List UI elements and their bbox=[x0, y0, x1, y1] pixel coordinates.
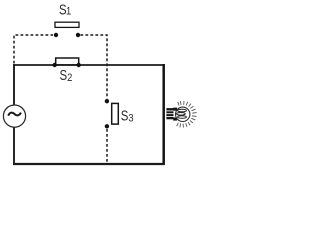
svg-text:3: 3 bbox=[128, 113, 133, 125]
wire: dashed branch, top-right segment from S1 down to S3 bbox=[80, 35, 107, 99]
wire: top of main loop bbox=[13, 64, 165, 66]
wire: dashed branch, left vertical and top-left segment to S1 bbox=[14, 35, 53, 64]
wire: dashed branch, from S3 down to bottom wire bbox=[106, 129, 108, 164]
lamp socket bbox=[166, 108, 173, 119]
wire: right side of main loop bbox=[162, 64, 165, 165]
wire: bottom of main loop bbox=[13, 163, 165, 165]
lamp L1 bbox=[166, 101, 196, 128]
switch S2 (closed) bbox=[53, 58, 81, 67]
wire: left side of main loop bbox=[13, 64, 15, 165]
AC source G1 bbox=[3, 105, 25, 127]
label S3 bbox=[121, 107, 134, 125]
svg-text:S: S bbox=[60, 67, 68, 84]
switch S1 (open) bbox=[54, 22, 80, 37]
svg-text:1: 1 bbox=[66, 6, 71, 18]
switch S3 (open) bbox=[105, 99, 119, 129]
label S2 bbox=[60, 67, 73, 85]
lamp bulb glass bbox=[176, 107, 190, 121]
lamp rays bbox=[177, 101, 197, 128]
svg-text:S: S bbox=[121, 107, 129, 124]
label S1 bbox=[59, 1, 71, 18]
lamp filament coil bbox=[177, 109, 187, 118]
svg-text:2: 2 bbox=[67, 72, 72, 84]
